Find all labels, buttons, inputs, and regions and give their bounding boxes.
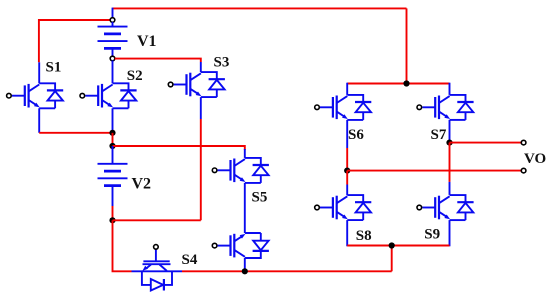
wire V2 bottom stub [112, 186, 114, 206]
pin V1 plus terminal [110, 18, 115, 23]
wire S9 emitter pin [449, 220, 451, 246]
wire S6 emitter pin red to node A [346, 148, 348, 171]
svg-text:V1: V1 [137, 33, 157, 50]
svg-text:V2: V2 [132, 176, 152, 193]
wire left feed from V1 plus [39, 20, 110, 62]
node junction bottom rail [389, 242, 395, 248]
svg-text:VO: VO [524, 151, 546, 167]
node junction S5 bottom on rail [242, 268, 248, 274]
wire right drop to bridge top rail [406, 8, 408, 83]
transistor S7 [417, 95, 474, 120]
wire bus1 S1 emitter to S2 emitter [39, 132, 112, 134]
node junction B (S7/S9 midpoint tap) [446, 140, 452, 146]
transistor S9 [417, 195, 474, 220]
wire S5 upper collector pin [244, 149, 246, 158]
wire node A to VO minus [347, 170, 521, 172]
wire bridge bottom rail [347, 245, 449, 247]
wire node B down red [449, 143, 451, 182]
wire V2 bottom to bus3 [112, 206, 114, 220]
wire bus3 [113, 219, 201, 221]
node junction bus1 [109, 130, 115, 136]
wire S3 emitter drop to bus3 [200, 119, 202, 220]
wire S1 emitter pin [38, 108, 40, 133]
transistor S5 lower (flipped) [212, 233, 269, 258]
pin VO plus terminal [521, 140, 526, 145]
svg-text:S3: S3 [214, 55, 230, 71]
wire riser to bridge bottom rail [391, 246, 393, 272]
svg-text:S5: S5 [252, 189, 268, 205]
battery V1 [98, 27, 128, 49]
wire S8 emitter pin [346, 220, 348, 246]
wire V1 plus stub (blue) [112, 8, 114, 18]
node junction top rail [403, 80, 409, 86]
node junction A (S6/S8 midpoint) [344, 168, 350, 174]
wire S2 emitter pin [112, 108, 114, 133]
wire S8 collector pin blue [346, 185, 348, 196]
battery V2 [98, 164, 128, 186]
pin V1 minus terminal [110, 56, 115, 61]
wire V2 top stub [112, 146, 114, 164]
wire bus2 to S5 upper collector [113, 146, 245, 150]
svg-text:S6: S6 [348, 127, 364, 143]
wire S5 upper emitter to S5 lower emitter [244, 183, 246, 233]
transistor S4 (rotated, gate up) [132, 245, 183, 291]
svg-text:S2: S2 [127, 68, 143, 84]
svg-text:S4: S4 [182, 252, 198, 268]
transistor S8 [315, 195, 372, 220]
transistor S5 upper [212, 158, 269, 183]
svg-text:S8: S8 [356, 228, 372, 244]
wire S5 lower bottom pin [244, 258, 246, 271]
wire S8 collector pin red [346, 171, 348, 185]
svg-text:S1: S1 [46, 60, 62, 76]
wire bottom rail from S4 to riser [182, 270, 392, 272]
wire S3 collector pin [200, 62, 202, 72]
wire link bus1 to bus2 [112, 133, 114, 146]
transistor S6 [315, 95, 372, 120]
svg-text:S9: S9 [424, 227, 440, 243]
node junction bus3 [109, 217, 115, 223]
transistor S3 [168, 72, 225, 97]
wire S6 collector pin [346, 83, 348, 95]
transistor S1 [7, 83, 64, 108]
wire bridge top rail [347, 83, 449, 85]
wire node B to VO plus [450, 142, 522, 144]
wire V1 minus to S3 collector [115, 59, 201, 62]
wire S9 collector pin blue [449, 182, 451, 195]
wire S6 emitter pin blue [346, 120, 348, 148]
wire bus3 down to bottom rail [113, 220, 132, 271]
svg-text:S7: S7 [431, 127, 447, 143]
wire S3 emitter pin [200, 97, 202, 119]
wire S2 collector pin [112, 60, 114, 83]
transistor S2 [80, 83, 137, 108]
wire S1 collector pin [38, 62, 40, 83]
wire V1 plate stubs [112, 22, 114, 27]
node junction bus2 [109, 143, 115, 149]
wire S7 emitter pin blue [449, 120, 451, 143]
wire top bus from V1 plus to right drop [113, 7, 407, 9]
pin VO minus terminal [521, 168, 526, 173]
wire S7 collector pin [449, 83, 451, 95]
